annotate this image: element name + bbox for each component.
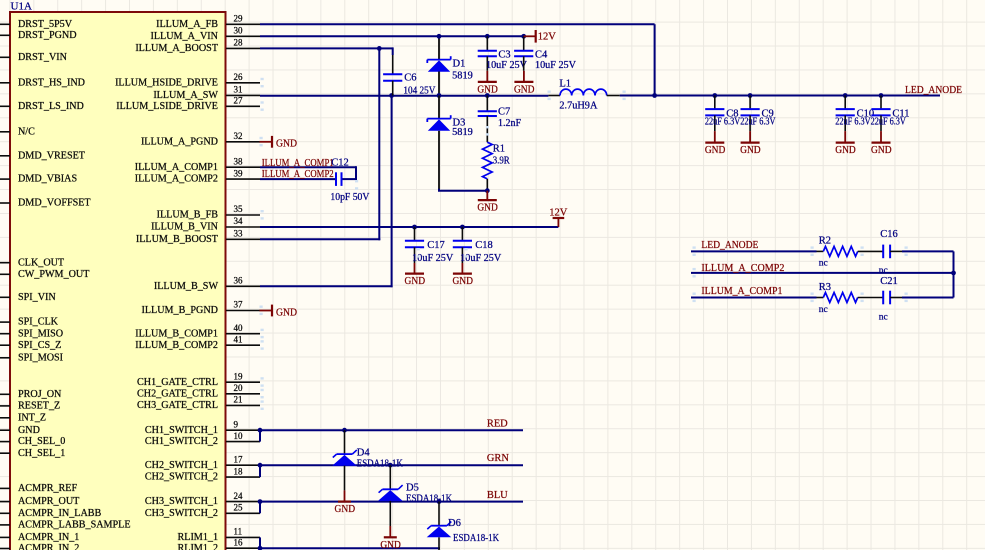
capacitor C21 — [879, 276, 902, 323]
capacitor C7 — [478, 96, 522, 143]
svg-text:11: 11 — [234, 527, 243, 537]
pin RESET_Z — [0, 401, 60, 412]
junction C17 top — [412, 225, 417, 230]
svg-text:37: 37 — [234, 300, 244, 310]
svg-text:17: 17 — [234, 454, 244, 464]
svg-text:R1: R1 — [493, 144, 505, 155]
svg-text:ILLUM_B_BOOST: ILLUM_B_BOOST — [136, 234, 219, 245]
net label LED_ANODE (right) — [701, 240, 758, 251]
pin N/C — [0, 126, 35, 137]
svg-text:DRST_HS_IND: DRST_HS_IND — [18, 77, 85, 88]
pin 18 CH2_SWITCH_2 — [145, 466, 260, 482]
svg-text:10: 10 — [234, 431, 244, 441]
svg-text:ILLUM_A_BOOST: ILLUM_A_BOOST — [135, 43, 219, 54]
svg-text:R3: R3 — [819, 282, 831, 293]
svg-text:GND: GND — [514, 85, 535, 96]
svg-text:104 25V: 104 25V — [403, 86, 436, 97]
pin ACMPR_IN_LABB — [0, 508, 102, 519]
wire 12V rail ILLUM_A_VIN — [260, 35, 524, 37]
junction BOOST/C6 — [377, 46, 382, 51]
svg-text:RLIM1_2: RLIM1_2 — [178, 543, 219, 550]
diode D6 ESDA18-1K — [427, 502, 500, 550]
svg-text:ACMPR_LABB_SAMPLE: ACMPR_LABB_SAMPLE — [18, 520, 131, 531]
pin 19 CH1_GATE_CTRL — [137, 371, 264, 387]
pin 9 CH1_SWITCH_1 — [145, 419, 260, 435]
svg-text:C17: C17 — [427, 240, 445, 251]
svg-text:LED_ANODE: LED_ANODE — [905, 85, 962, 96]
svg-text:nc: nc — [879, 266, 888, 276]
svg-text:27: 27 — [234, 96, 244, 106]
diode D5 ESDA18-1K — [378, 465, 453, 526]
svg-text:10uF 25V: 10uF 25V — [460, 253, 502, 264]
svg-text:41: 41 — [234, 334, 243, 344]
pin 21 CH3_GATE_CTRL — [137, 395, 264, 411]
svg-text:ILLUM_B_PGND: ILLUM_B_PGND — [141, 305, 218, 316]
ground port pin 32 — [260, 136, 298, 150]
pin 36 ILLUM_B_SW — [154, 276, 260, 292]
svg-text:GND: GND — [477, 203, 498, 214]
wire BLU — [260, 501, 523, 503]
junction D5 top — [388, 463, 393, 468]
svg-text:GND: GND — [18, 425, 40, 436]
svg-text:ILLUM_A_VIN: ILLUM_A_VIN — [151, 31, 219, 42]
wire LED_ANODE (right section) — [691, 250, 817, 252]
pin 30 ILLUM_A_VIN — [151, 26, 261, 42]
capacitor C17 — [405, 227, 454, 264]
svg-text:28: 28 — [234, 38, 244, 48]
svg-text:DRST_VIN: DRST_VIN — [18, 52, 68, 63]
svg-text:10uF 25V: 10uF 25V — [535, 60, 577, 71]
svg-text:DRST_PGND: DRST_PGND — [18, 30, 77, 41]
capacitor C8 — [705, 96, 741, 132]
svg-text:GND: GND — [276, 139, 297, 150]
svg-text:CH3_SWITCH_2: CH3_SWITCH_2 — [145, 508, 218, 519]
pin DRST_VIN — [0, 52, 68, 63]
pin SPI_CS_Z — [0, 340, 61, 351]
wire SW tie vertical — [391, 96, 393, 288]
designator U1A — [11, 0, 32, 12]
capacitor C6 — [383, 55, 436, 97]
pin SPI_MOSI — [0, 352, 64, 363]
svg-text:ILLUM_A_PGND: ILLUM_A_PGND — [141, 136, 218, 147]
junction C9 top — [748, 93, 753, 98]
ground for C11 — [871, 131, 892, 156]
pin CH_SEL_1 — [0, 448, 65, 459]
wire ILLUM_B_BOOST — [260, 238, 380, 240]
net label ILLUM_A_COMP1 (right) — [701, 286, 782, 297]
svg-text:C16: C16 — [880, 229, 898, 240]
svg-text:D6: D6 — [448, 518, 461, 529]
pin bracket CH3_SWITCH — [259, 502, 261, 514]
pin bracket CH1_SWITCH — [259, 430, 261, 441]
resistor R2 — [817, 236, 884, 269]
pin 28 ILLUM_A_BOOST — [135, 38, 260, 54]
junction C18 top — [460, 225, 465, 230]
capacitor C10 — [835, 96, 874, 132]
wire BOOST tie vertical — [378, 48, 380, 240]
svg-text:GRN: GRN — [487, 453, 509, 464]
svg-text:ILLUM_A_COMP1: ILLUM_A_COMP1 — [135, 162, 218, 173]
ground port pin 37 — [260, 305, 298, 319]
svg-text:ILLUM_B_COMP2: ILLUM_B_COMP2 — [135, 340, 218, 351]
pin 41 ILLUM_B_COMP2 — [135, 334, 263, 350]
capacitor C3 — [478, 36, 528, 71]
svg-text:CH_SEL_0: CH_SEL_0 — [18, 436, 65, 447]
svg-text:35: 35 — [234, 204, 244, 214]
junction CH3 — [258, 499, 263, 504]
svg-text:20: 20 — [234, 383, 244, 393]
svg-text:GND: GND — [740, 145, 761, 156]
junction D4 top — [342, 428, 347, 433]
pin 10 CH1_SWITCH_2 — [145, 431, 260, 447]
svg-text:L1: L1 — [559, 79, 571, 90]
net label ILLUM_A_COMP2 (right) — [701, 263, 784, 274]
svg-text:16: 16 — [234, 537, 244, 547]
svg-text:DMD_VRESET: DMD_VRESET — [18, 150, 86, 161]
svg-text:CH1_SWITCH_1: CH1_SWITCH_1 — [145, 425, 218, 436]
pin bracket CH2_SWITCH — [259, 465, 261, 477]
ground for D5 — [380, 526, 401, 550]
pin 17 CH2_SWITCH_1 — [145, 454, 260, 470]
diode D4 ESDA18-1K — [332, 430, 403, 490]
pin DRST_LS_IND — [0, 101, 84, 112]
svg-text:GND: GND — [276, 307, 297, 318]
pin 31 ILLUM_A_SW — [153, 85, 260, 101]
wire ILLUM_A_BOOST — [260, 47, 380, 49]
svg-text:SPI_MOSI: SPI_MOSI — [18, 352, 64, 363]
pin SPI_VIN — [0, 292, 56, 303]
pin DMD_VRESET — [0, 150, 86, 161]
svg-text:LED_ANODE: LED_ANODE — [701, 240, 758, 251]
resistor R3 — [817, 282, 884, 315]
pin DRST_HS_IND — [0, 77, 85, 88]
svg-text:D1: D1 — [453, 59, 466, 70]
svg-text:CH1_GATE_CTRL: CH1_GATE_CTRL — [137, 377, 218, 388]
wire C16 to corner — [902, 250, 954, 252]
svg-text:31: 31 — [234, 85, 243, 95]
wire COMP1-COMP2 vertical — [355, 166, 357, 180]
svg-text:D5: D5 — [406, 483, 419, 494]
svg-text:ESDA18-1K: ESDA18-1K — [453, 533, 500, 544]
wire ILLUM_B_SW — [260, 285, 393, 287]
svg-text:2.7uH9A: 2.7uH9A — [559, 101, 598, 112]
wire C21 to corner — [902, 297, 954, 299]
wire GRN — [260, 464, 523, 466]
diode D1 5819 — [427, 36, 473, 95]
pin 35 ILLUM_B_FB — [157, 204, 264, 220]
junction CH2 — [258, 463, 263, 468]
capacitor C11 — [871, 96, 910, 132]
svg-text:nc: nc — [819, 259, 828, 269]
svg-text:30: 30 — [234, 26, 244, 36]
svg-text:ILLUM_HSIDE_DRIVE: ILLUM_HSIDE_DRIVE — [115, 77, 218, 88]
svg-text:32: 32 — [234, 131, 243, 141]
wire ILLUM_A_FB to LED_ANODE (horizontal) — [260, 23, 655, 25]
junction D1 top — [437, 34, 442, 39]
pin 40 ILLUM_B_COMP1 — [135, 323, 263, 339]
pin CLK_OUT — [0, 257, 65, 268]
wire RED — [260, 429, 523, 431]
svg-text:ACMPR_IN_2: ACMPR_IN_2 — [18, 543, 79, 550]
svg-text:nc: nc — [819, 305, 828, 315]
svg-text:ESDA18-1K: ESDA18-1K — [406, 493, 453, 504]
pin SPI_MISO — [0, 328, 63, 339]
svg-text:DRST_LS_IND: DRST_LS_IND — [18, 101, 84, 112]
svg-text:34: 34 — [234, 216, 244, 226]
pin ACMPR_IN_1 — [0, 532, 79, 543]
svg-text:C21: C21 — [880, 276, 898, 287]
svg-text:DRST_5P5V: DRST_5P5V — [18, 19, 73, 30]
svg-text:CH3_GATE_CTRL: CH3_GATE_CTRL — [137, 400, 218, 411]
capacitor C16 — [879, 229, 902, 276]
svg-text:SPI_MISO: SPI_MISO — [18, 328, 63, 339]
svg-text:CH_SEL_1: CH_SEL_1 — [18, 448, 65, 459]
pin GND — [0, 425, 40, 436]
junction C3 top — [485, 34, 490, 39]
pin 20 CH2_GATE_CTRL — [137, 383, 264, 399]
svg-text:GND: GND — [452, 276, 473, 287]
pin ACMPR_OUT — [0, 496, 80, 507]
junction D6 top — [437, 499, 442, 504]
svg-text:10uF 25V: 10uF 25V — [412, 253, 454, 264]
ground for C10 — [835, 131, 856, 156]
svg-text:C7: C7 — [498, 106, 510, 117]
power port 12V (A rail) — [524, 30, 557, 43]
svg-text:10uF 25V: 10uF 25V — [486, 60, 528, 71]
net label GRN — [487, 453, 509, 464]
wire ILLUM_A_FB drop (vertical) — [654, 24, 656, 95]
svg-text:U1A: U1A — [11, 0, 32, 12]
svg-text:RLIM1_1: RLIM1_1 — [178, 532, 219, 543]
svg-text:22uF 6.3V: 22uF 6.3V — [835, 117, 871, 128]
svg-text:GND: GND — [405, 276, 426, 287]
junction D1 bottom — [437, 93, 442, 98]
svg-text:GND: GND — [380, 540, 401, 550]
wire RLIM1_2 — [260, 547, 440, 549]
svg-text:CW_PWM_OUT: CW_PWM_OUT — [18, 269, 90, 280]
wire ILLUM_A_COMP2 (right) — [691, 272, 954, 274]
svg-text:CLK_OUT: CLK_OUT — [18, 257, 65, 268]
pin CH_SEL_0 — [0, 436, 65, 447]
svg-text:33: 33 — [234, 229, 244, 239]
svg-text:DMD_VBIAS: DMD_VBIAS — [18, 174, 77, 185]
svg-text:10pF 50V: 10pF 50V — [330, 192, 370, 203]
svg-text:38: 38 — [234, 156, 244, 166]
svg-text:36: 36 — [234, 276, 244, 286]
svg-text:ILLUM_B_COMP1: ILLUM_B_COMP1 — [135, 328, 218, 339]
net label RED — [487, 419, 508, 430]
wire D3 anode to GND node — [438, 189, 487, 191]
junction CH1 — [258, 428, 263, 433]
pin ACMPR_LABB_SAMPLE — [0, 520, 131, 531]
svg-text:SPI_VIN: SPI_VIN — [18, 292, 56, 303]
svg-text:CH3_SWITCH_1: CH3_SWITCH_1 — [145, 496, 218, 507]
svg-text:GND: GND — [335, 504, 356, 515]
net label ILLUM_A_COMP2 (pin39) — [262, 169, 334, 180]
junction C8 top — [712, 93, 717, 98]
svg-text:ILLUM_A_COMP1: ILLUM_A_COMP1 — [262, 158, 334, 169]
pin 39 ILLUM_A_COMP2 — [135, 168, 260, 184]
svg-text:CH2_GATE_CTRL: CH2_GATE_CTRL — [137, 388, 218, 399]
svg-text:ILLUM_B_VIN: ILLUM_B_VIN — [151, 222, 219, 233]
svg-text:12V: 12V — [549, 208, 568, 219]
pin 25 CH3_SWITCH_2 — [145, 503, 260, 519]
pin 29 ILLUM_A_FB — [156, 14, 260, 30]
svg-text:ACMPR_REF: ACMPR_REF — [18, 483, 77, 494]
junction C4 top — [521, 34, 526, 39]
svg-text:5819: 5819 — [452, 127, 473, 138]
wire ILLUM_B_VIN — [260, 226, 558, 228]
pin 11 RLIM1_1 — [178, 527, 261, 543]
pin 37 ILLUM_B_PGND — [141, 300, 260, 316]
pin CW_PWM_OUT — [0, 269, 90, 280]
pin 16 RLIM1_2 — [178, 537, 261, 550]
pin INT_Z — [0, 412, 46, 423]
ground for C18 — [452, 263, 473, 287]
svg-text:ILLUM_LSIDE_DRIVE: ILLUM_LSIDE_DRIVE — [116, 101, 218, 112]
svg-text:39: 39 — [234, 168, 244, 178]
svg-text:22uF 6.3V: 22uF 6.3V — [871, 117, 907, 128]
svg-text:nc: nc — [879, 313, 888, 323]
svg-text:C12: C12 — [331, 158, 349, 169]
svg-text:PROJ_ON: PROJ_ON — [18, 389, 62, 400]
pin 26 ILLUM_HSIDE_DRIVE — [115, 72, 264, 88]
net label LED_ANODE (top) — [905, 85, 962, 96]
net label BLU — [487, 490, 508, 501]
junction C7 top — [485, 93, 490, 98]
svg-text:25: 25 — [234, 503, 244, 513]
junction C11 top — [879, 93, 884, 98]
junction on LED_ANODE at FB drop — [652, 93, 657, 98]
capacitor C4 — [514, 36, 577, 71]
svg-text:22uF 6.3V: 22uF 6.3V — [740, 117, 776, 128]
svg-text:SPI_CLK: SPI_CLK — [18, 317, 59, 328]
pin bracket RLIM1 — [259, 537, 261, 548]
svg-text:ACMPR_IN_LABB: ACMPR_IN_LABB — [18, 508, 102, 519]
svg-text:CH2_SWITCH_2: CH2_SWITCH_2 — [145, 472, 218, 483]
svg-text:ILLUM_A_COMP1: ILLUM_A_COMP1 — [701, 286, 782, 297]
svg-text:26: 26 — [234, 72, 244, 82]
svg-text:C3: C3 — [498, 50, 510, 61]
svg-text:GND: GND — [705, 145, 726, 156]
junction RLIM1 — [258, 546, 263, 550]
wire right vertical tie — [953, 251, 955, 297]
wire C6 top corner — [379, 47, 392, 55]
pin DMD_VBIAS — [0, 174, 77, 185]
ground for C9 — [740, 131, 761, 156]
svg-text:1.2nF: 1.2nF — [498, 118, 521, 129]
svg-text:29: 29 — [234, 14, 244, 24]
pin 34 ILLUM_B_VIN — [151, 216, 260, 232]
svg-text:C4: C4 — [535, 50, 548, 61]
svg-text:D4: D4 — [357, 447, 371, 458]
svg-text:ILLUM_A_COMP2: ILLUM_A_COMP2 — [262, 169, 334, 180]
svg-text:CH1_SWITCH_2: CH1_SWITCH_2 — [145, 436, 218, 447]
svg-text:SPI_CS_Z: SPI_CS_Z — [18, 340, 61, 351]
wire LED_ANODE after L1 — [620, 95, 940, 97]
svg-text:19: 19 — [234, 371, 244, 381]
svg-text:40: 40 — [234, 323, 244, 333]
wire ILLUM_A_COMP1 (right) — [691, 297, 817, 299]
no-connect marks — [355, 91, 908, 303]
pin 27 ILLUM_LSIDE_DRIVE — [116, 96, 264, 112]
svg-text:9: 9 — [234, 419, 239, 429]
wire ILLUM_A_COMP1 stub — [260, 166, 356, 168]
capacitor C18 — [453, 227, 502, 264]
pin DMD_VOFFSET — [0, 198, 91, 209]
ground for C17 — [405, 263, 426, 287]
svg-text:GND: GND — [835, 145, 856, 156]
junction R1 bottom — [485, 188, 490, 193]
svg-text:ILLUM_A_COMP2: ILLUM_A_COMP2 — [135, 174, 218, 185]
svg-text:INT_Z: INT_Z — [18, 412, 46, 423]
svg-text:CH2_SWITCH_1: CH2_SWITCH_1 — [145, 460, 218, 471]
junction C10 top — [843, 93, 848, 98]
net label ILLUM_A_COMP1 (pin38) — [262, 158, 334, 169]
svg-text:ILLUM_A_COMP2: ILLUM_A_COMP2 — [701, 263, 784, 274]
pin 33 ILLUM_B_BOOST — [136, 229, 260, 245]
pin ACMPR_REF — [0, 483, 77, 494]
svg-text:18: 18 — [234, 466, 244, 476]
junction SW/C6 — [389, 93, 394, 98]
pin 24 CH3_SWITCH_1 — [145, 491, 260, 507]
svg-text:GND: GND — [871, 145, 892, 156]
svg-text:DMD_VOFFSET: DMD_VOFFSET — [18, 198, 91, 209]
ground for C8 — [705, 131, 726, 156]
pin 32 ILLUM_A_PGND — [141, 131, 260, 147]
pin 38 ILLUM_A_COMP1 — [135, 156, 260, 172]
ground below R1 — [477, 191, 498, 214]
ground for C4 — [514, 71, 535, 96]
diode D3 5819 — [427, 96, 473, 190]
wire C12 right to corner — [342, 178, 357, 180]
svg-text:21: 21 — [234, 395, 243, 405]
svg-text:C18: C18 — [475, 240, 493, 251]
IC U1A body — [10, 12, 226, 550]
wire ILLUM_A_SW — [260, 95, 548, 97]
capacitor C9 — [740, 96, 776, 132]
junction COMP2 right — [951, 271, 956, 276]
svg-text:ACMPR_IN_1: ACMPR_IN_1 — [18, 532, 79, 543]
pin DRST_PGND — [0, 30, 77, 41]
svg-text:ILLUM_A_FB: ILLUM_A_FB — [156, 19, 218, 30]
svg-text:5819: 5819 — [452, 70, 473, 81]
svg-text:ILLUM_B_SW: ILLUM_B_SW — [154, 281, 219, 292]
pin PROJ_ON — [0, 389, 62, 400]
capacitor C12 — [330, 158, 370, 203]
pin DRST_5P5V — [0, 19, 73, 30]
svg-text:N/C: N/C — [18, 126, 35, 137]
svg-text:BLU: BLU — [487, 490, 508, 501]
svg-text:12V: 12V — [538, 32, 557, 43]
ground for D4 — [335, 490, 356, 515]
svg-text:ILLUM_B_FB: ILLUM_B_FB — [157, 210, 219, 221]
svg-text:ESDA18-1K: ESDA18-1K — [357, 458, 404, 469]
resistor R1 3.9R — [483, 142, 510, 191]
pin ACMPR_IN_2 — [0, 543, 79, 550]
svg-text:3.9R: 3.9R — [493, 155, 510, 166]
svg-text:ILLUM_A_SW: ILLUM_A_SW — [153, 90, 218, 101]
pin SPI_CLK — [0, 317, 59, 328]
svg-text:ACMPR_OUT: ACMPR_OUT — [18, 496, 80, 507]
svg-text:RESET_Z: RESET_Z — [18, 401, 60, 412]
svg-text:24: 24 — [234, 491, 244, 501]
wire ILLUM_A_COMP2 to C12 — [260, 178, 336, 180]
svg-text:22uF 6.3V: 22uF 6.3V — [705, 117, 741, 128]
ground for C3 — [477, 71, 498, 96]
svg-text:C6: C6 — [404, 73, 416, 84]
inductor L1 2.7uH9A — [548, 79, 619, 112]
